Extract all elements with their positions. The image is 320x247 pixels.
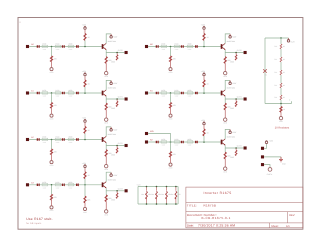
wire emitter ground R2 (224, 159, 226, 167)
wire collector L0 (106, 34, 111, 44)
resistor RL3pu (84, 172, 86, 179)
junction output node R1 (235, 98, 237, 100)
wire ladder chain (280, 38, 282, 104)
svg-text:4K99: 4K99 (68, 181, 72, 184)
output port POL2 (125, 144, 128, 147)
svg-text:R1675B: R1675B (204, 203, 217, 207)
series element DL0c (76, 45, 78, 47)
svg-text:Use R167 stub.: Use R167 stub. (26, 217, 53, 221)
supply V+ ladder (287, 40, 289, 42)
ground 0V emitter L1 (105, 118, 108, 121)
svg-text:OUT2: OUT2 (118, 142, 123, 145)
junction pull-up node L2 (84, 139, 86, 141)
resistor RR1c (187, 92, 193, 94)
wire input net row R0 (148, 46, 221, 48)
junction output node R2 (235, 147, 237, 149)
wire to ground L1 (51, 108, 53, 114)
resistor RL0pd (51, 56, 53, 62)
ground 0V emitter R1 (224, 118, 227, 121)
output port POL1 (125, 97, 128, 100)
capacitor C2 (156, 187, 158, 191)
svg-text:Sheet:: Sheet: (271, 225, 279, 228)
series element DR2a (156, 141, 158, 143)
wire GND net (264, 156, 281, 158)
wire emitter L0 (106, 50, 124, 53)
supply V+ symbol L3 (84, 165, 86, 167)
svg-text:OUT1: OUT1 (237, 96, 242, 99)
wire pulldown stub L0 (51, 47, 53, 57)
wire emitter ground L2 (105, 156, 107, 164)
svg-text:OUT2: OUT2 (237, 145, 242, 148)
svg-text:OUT1: OUT1 (118, 96, 123, 99)
resistor RR0o hang (235, 53, 237, 55)
wire cap bank bottom rail (138, 203, 178, 205)
svg-text:4K99: 4K99 (187, 43, 191, 46)
wire to V+ L0 (84, 30, 86, 34)
series element DR1b (181, 92, 183, 94)
ground 0V symbol L2 (50, 161, 53, 164)
resistor RL1b (55, 92, 61, 94)
svg-text:C9: C9 (265, 74, 267, 77)
resistor RL2e (105, 150, 107, 157)
wire to V+ R0 (203, 30, 205, 34)
wire to V+ R1 (203, 76, 205, 80)
wire emitter-load stub L1 (105, 99, 107, 103)
resistor RL2 (280, 57, 283, 62)
resistor RL1a (42, 92, 48, 94)
wire pulldown stub R0 (170, 47, 172, 57)
junction pull-up node L3 (84, 184, 86, 186)
resistor RL2c (68, 138, 74, 140)
wire input net row L1 (29, 92, 102, 94)
series element DL3b (62, 184, 64, 186)
wire to V+ R2 (203, 125, 205, 129)
wire to V+ L1 (84, 76, 86, 80)
resistor RR0b (174, 45, 180, 47)
transistor QL1 (102, 91, 104, 96)
wire extra pulldown stub L3 (84, 185, 86, 196)
svg-text:Inverter R1675: Inverter R1675 (204, 191, 232, 195)
input port PR1 (145, 91, 148, 94)
svg-text:4K99: 4K99 (42, 136, 46, 139)
resistor RL1c (68, 92, 74, 94)
resistor RL2o hang (116, 146, 118, 148)
series element DL3a (37, 184, 39, 186)
junction output node L2 (116, 145, 118, 147)
input port PL3 (26, 183, 29, 186)
ground 0V emitter L0 (105, 71, 108, 74)
resistor RL3pd (51, 194, 53, 200)
svg-text:OUT0: OUT0 (118, 49, 123, 52)
wire emitter-load stub L0 (105, 53, 107, 57)
wire emitter-load stub L2 (105, 146, 107, 150)
supply V+ symbol R0 (203, 27, 205, 29)
wire emitter L2 (106, 143, 124, 146)
svg-text:OUT3: OUT3 (118, 187, 123, 190)
transistor QL0 (102, 44, 104, 49)
wire pull-up stub R2 (203, 136, 205, 142)
junction ladder bottom (280, 103, 282, 105)
wire 0V stub (264, 165, 270, 168)
resistor RL2a (42, 138, 48, 140)
input port PL0 (26, 45, 29, 48)
ground 0V emitter L2 (105, 164, 108, 167)
resistor RL3x (84, 196, 86, 203)
wire collector V+ stub L2 (110, 127, 112, 129)
series element DL1b (62, 92, 64, 94)
input port PR0 (145, 45, 148, 48)
wire pull-up stub R0 (203, 40, 205, 46)
ground 0V symbol L0 (50, 68, 53, 71)
title block divider Sheet (268, 223, 270, 228)
wire pulldown stub L1 (51, 93, 53, 103)
supply V+ collector R2 (229, 131, 231, 133)
supply V+ symbol L2 (84, 120, 86, 122)
junction bank bottom C4 (175, 203, 177, 205)
capacitor C3 (166, 187, 168, 191)
junction bank top C4 (175, 186, 177, 188)
resistor RL1pu (84, 80, 86, 87)
supply V+ collector L1 (110, 82, 112, 84)
junction bank top C1 (146, 186, 148, 188)
resistor RLG (280, 107, 282, 113)
wire to ground R0 (170, 62, 172, 68)
ground 0V symbol extra L3 (83, 207, 86, 210)
resistor RR2b (174, 141, 180, 143)
wire emitter ground L0 (105, 63, 107, 71)
ground 0V symbol R2 (169, 163, 172, 166)
junction base-divider node L0 (51, 46, 53, 48)
schematic frame border (18, 18, 303, 230)
resistor RL0e (105, 57, 107, 64)
svg-text:4K99: 4K99 (187, 89, 191, 92)
wire collector V+ stub L3 (110, 172, 112, 174)
resistor RL3b (55, 184, 61, 186)
wire collector V+ stub R2 (229, 129, 231, 131)
resistor RR1b (174, 92, 180, 94)
title block line 1 (186, 202, 303, 204)
wire input net row R1 (148, 92, 221, 94)
resistor RR1pd (170, 103, 172, 109)
svg-text:GND: GND (111, 199, 116, 202)
wire ladder ground stub (280, 104, 282, 107)
wire input net row L3 (29, 184, 102, 186)
junction output node L0 (116, 52, 118, 54)
power port +12V (261, 147, 264, 150)
resistor RL2b (55, 138, 61, 140)
wire collector L1 (106, 80, 111, 90)
svg-text:for DB inputs: for DB inputs (26, 222, 42, 225)
resistor RR2pu (203, 129, 205, 136)
resistor RL3a (42, 184, 48, 186)
wire to ground L0 (51, 62, 53, 68)
series element DL0b (62, 45, 64, 47)
wire pull-up stub L3 (84, 179, 86, 185)
wire to ground L2 (51, 155, 53, 161)
junction bank bottom C2 (156, 203, 158, 205)
title block line 2 (186, 211, 303, 213)
ground 0V symbol L1 (50, 114, 53, 117)
svg-text:7/30/2017 8:25:36 AM: 7/30/2017 8:25:36 AM (198, 224, 235, 228)
supply V+ collector L0 (110, 36, 112, 38)
resistor RL2pd (51, 149, 53, 155)
wire emitter ground R0 (224, 63, 226, 71)
ground 0V symbol R0 (169, 68, 172, 71)
junction output node R0 (235, 52, 237, 54)
svg-text:GND: GND (111, 107, 116, 110)
resistor RL1o hang (116, 99, 118, 101)
wire collector R0 (225, 34, 230, 44)
junction base-divider node L2 (51, 139, 53, 141)
wire collector R2 (225, 129, 230, 139)
wire bypass left (264, 38, 266, 104)
resistor RL0o hang (116, 53, 118, 55)
resistor RL3 (280, 70, 283, 75)
svg-text:4K99: 4K99 (68, 89, 72, 92)
wire collector L3 (106, 172, 111, 182)
resistor RR2pd (170, 152, 172, 158)
output port POR2 (244, 146, 247, 149)
resistor RR0pd (170, 56, 172, 62)
ground 0V emitter L3 (105, 210, 108, 213)
svg-text:4K99: 4K99 (161, 43, 165, 46)
ground 0V ladder (279, 116, 282, 119)
series element DR0c (195, 45, 197, 47)
ground 0V emitter R0 (224, 71, 227, 74)
svg-text:TITLE:: TITLE: (187, 203, 197, 207)
transistor QL3 (102, 182, 104, 187)
wire input net row R2 (148, 141, 221, 143)
resistor RL5 (280, 95, 283, 100)
junction output node L1 (116, 98, 118, 100)
wire pull-up stub L2 (84, 133, 86, 139)
svg-text:4K99: 4K99 (68, 43, 72, 46)
resistor RR2e (224, 152, 226, 159)
wire collector L2 (106, 127, 111, 136)
series element DL0a (37, 45, 39, 47)
supply V+ symbol L0 (84, 27, 86, 29)
junction pull-up node R1 (203, 92, 205, 94)
junction bank top C2 (156, 186, 158, 188)
junction pull-up node R0 (203, 46, 205, 48)
ground 0V symbol R1 (169, 114, 172, 117)
series element DL2a (37, 138, 39, 140)
svg-text:4K99: 4K99 (161, 138, 165, 141)
capacitor bypass (263, 69, 267, 73)
wire to ground R2 (170, 157, 172, 163)
transistor QR0 (221, 44, 223, 49)
svg-text:1K00: 1K00 (55, 136, 59, 139)
wire pull-up stub R1 (203, 87, 205, 93)
resistor RR1a (161, 92, 167, 94)
wire extra to ground L3 (84, 203, 86, 208)
wire emitter-load stub R0 (224, 53, 226, 57)
junction pull-up node L0 (84, 46, 86, 48)
wire collector V+ stub R1 (229, 80, 231, 82)
capacitor C1 (146, 187, 148, 191)
output port POL0 (125, 51, 128, 54)
wire to ground ladder (280, 112, 282, 116)
wire to V+ L2 (84, 123, 86, 127)
resistor RR0c (187, 45, 193, 47)
supply V+ symbol R2 (203, 122, 205, 124)
wire emitter L1 (106, 96, 124, 99)
transistor QR1 (221, 91, 223, 96)
wire pulldown stub L3 (51, 185, 53, 195)
wire ladder top (265, 37, 289, 39)
ground GND symbol (279, 157, 283, 162)
resistor RR1o hang (235, 99, 237, 101)
resistor RL0a (42, 45, 48, 47)
supply V+ symbol R1 (203, 73, 205, 75)
junction bank bottom C3 (166, 203, 168, 205)
series element DL3c (76, 184, 78, 186)
wire to V+ L3 (84, 168, 86, 172)
wire input net row L0 (29, 46, 102, 48)
series element DR0b (181, 45, 183, 47)
resistor RR2c (187, 141, 193, 143)
svg-text:4K99: 4K99 (42, 43, 46, 46)
wire emitter ground L1 (105, 110, 107, 118)
wire collector V+ stub R0 (229, 34, 231, 36)
svg-text:GND: GND (230, 107, 235, 110)
junction output node L3 (116, 190, 118, 192)
svg-text:GND: GND (230, 156, 235, 159)
series element DR2c (195, 141, 197, 143)
resistor RL2pu (84, 127, 86, 134)
resistor RL1pd (51, 103, 53, 109)
resistor RL4 (280, 83, 283, 88)
resistor RL1e (105, 103, 107, 110)
svg-text:GND: GND (111, 60, 116, 63)
svg-text:Date:: Date: (187, 224, 194, 228)
supply V+ collector L3 (110, 174, 112, 176)
supply V+ collector R1 (229, 82, 231, 84)
wire emitter L3 (106, 188, 124, 191)
svg-text:4K99: 4K99 (42, 89, 46, 92)
wire emitter-load stub R2 (224, 148, 226, 152)
title block line 3 (186, 222, 303, 224)
svg-text:B-CB-R1675-0-1: B-CB-R1675-0-1 (202, 216, 231, 220)
svg-text:1K00: 1K00 (174, 89, 178, 92)
wire +12V stub (264, 144, 266, 149)
wire emitter ground R1 (224, 110, 226, 118)
resistor RL3e (105, 195, 107, 202)
wire pulldown stub R2 (170, 142, 172, 152)
resistor RL3c (68, 184, 74, 186)
junction ladder top (280, 37, 282, 39)
resistor RR0a (161, 45, 167, 47)
series element DL1c (76, 92, 78, 94)
resistor RL0b (55, 45, 61, 47)
transistor QL2 (102, 137, 104, 142)
ground 0V emitter R2 (224, 167, 227, 170)
power port 0V (261, 163, 264, 166)
svg-text:GND: GND (230, 60, 235, 63)
series element DR2b (181, 141, 183, 143)
wire collector V+ stub L0 (110, 34, 112, 36)
series element DR1c (195, 92, 197, 94)
series element DL1a (37, 92, 39, 94)
output port POL3 (125, 189, 128, 192)
svg-text:1K00: 1K00 (55, 181, 59, 184)
resistor RR2a (161, 141, 167, 143)
wire emitter ground L3 (105, 202, 107, 210)
svg-text:1K00: 1K00 (174, 138, 178, 141)
wire input net row L2 (29, 139, 102, 141)
series element DL2c (76, 138, 78, 140)
junction pull-up node L1 (84, 92, 86, 94)
wire cap bank right edge (177, 187, 179, 205)
junction base-divider node L3 (51, 184, 53, 186)
ground 0V symbol cluster (268, 168, 272, 172)
svg-text:1K00: 1K00 (55, 43, 59, 46)
svg-text:4K99: 4K99 (161, 89, 165, 92)
wire ladder V+ stub (288, 38, 290, 40)
wire to ground R1 (170, 108, 172, 114)
resistor RL1 (280, 44, 283, 49)
svg-text:4K99: 4K99 (68, 136, 72, 139)
junction bank top C3 (166, 186, 168, 188)
series element DR1a (156, 92, 158, 94)
supply V+ collector R0 (229, 36, 231, 38)
wire pull-up stub L0 (84, 40, 86, 46)
power port GND (261, 155, 264, 158)
junction base-divider node L1 (51, 92, 53, 94)
ground 0V symbol L3 (50, 206, 53, 209)
resistor RL3o hang (116, 191, 118, 193)
transistor QR2 (221, 140, 223, 145)
wire emitter-load stub L3 (105, 191, 107, 195)
svg-text:1K00: 1K00 (55, 89, 59, 92)
title block divider REV (287, 212, 289, 223)
resistor RR1e (224, 103, 226, 110)
junction base-divider node R2 (170, 141, 172, 143)
wire pull-up stub L1 (84, 87, 86, 93)
input port PL2 (26, 138, 29, 141)
wire cap bank left edge (137, 187, 139, 205)
junction base-divider node R0 (170, 46, 172, 48)
wire emitter-load stub R1 (224, 99, 226, 103)
resistor RR0pu (203, 34, 205, 41)
svg-text:GND: GND (111, 153, 116, 156)
wire pulldown stub R1 (170, 93, 172, 103)
supply +12V symbol (265, 141, 267, 143)
svg-text:4K99: 4K99 (187, 138, 191, 141)
resistor RR0e (224, 57, 226, 64)
wire collector R1 (225, 80, 230, 90)
supply V+ collector L2 (110, 129, 112, 131)
input port PR2 (145, 140, 148, 143)
junction bank bottom C1 (146, 203, 148, 205)
wire cap bank top rail (138, 186, 178, 188)
wire emitter R2 (225, 145, 243, 148)
svg-text:REV:: REV: (289, 214, 295, 217)
wire second input R2 (148, 134, 170, 143)
title block outline (186, 187, 303, 228)
resistor RL0c (68, 45, 74, 47)
output port POR1 (244, 97, 247, 100)
wire emitter R0 (225, 50, 243, 53)
output port POR0 (244, 51, 247, 54)
series element DL2b (62, 138, 64, 140)
input port PR2b (145, 132, 148, 135)
net tick ladder end (291, 101, 293, 103)
capacitor C4 (175, 187, 177, 191)
wire collector V+ stub L1 (110, 80, 112, 82)
svg-text:OUT0: OUT0 (237, 49, 242, 52)
svg-text:20 Resistors: 20 Resistors (275, 127, 290, 130)
